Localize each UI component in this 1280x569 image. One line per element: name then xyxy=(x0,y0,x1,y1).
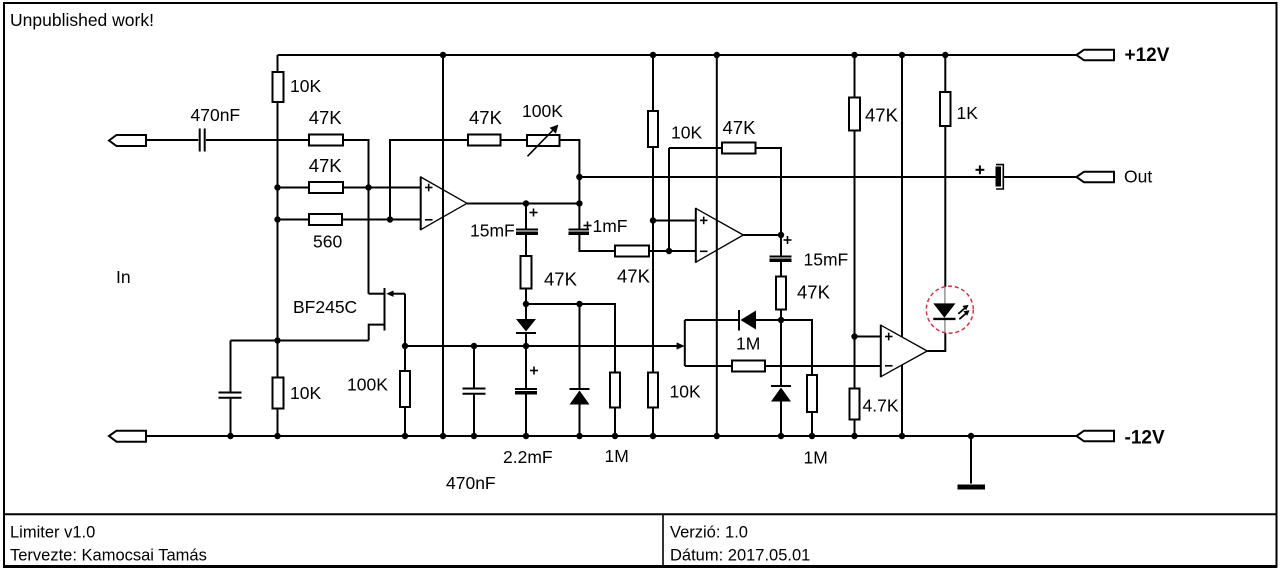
svg-text:In: In xyxy=(116,267,131,287)
svg-text:1M: 1M xyxy=(804,448,828,468)
node junction x390 xyxy=(387,216,393,222)
wire 4.7K to rail xyxy=(854,420,856,437)
svg-text:560: 560 xyxy=(313,232,342,252)
wire out cap to connector xyxy=(1003,176,1077,178)
svg-text:47K: 47K xyxy=(617,266,651,287)
node junction botrail x580 xyxy=(576,433,582,439)
vertical wire 10K col x653 xyxy=(652,55,654,111)
plus mark 2.2mF xyxy=(530,367,538,375)
title block divider xyxy=(662,515,664,566)
LED D5 xyxy=(926,286,973,333)
capacitor source bypass xyxy=(219,393,242,398)
wire 15mF1 top xyxy=(525,204,527,230)
node junction rail x443 xyxy=(440,52,446,58)
node junction rail x902 xyxy=(899,52,905,58)
node junction 15mF branch xyxy=(523,200,529,206)
node junction +in3 xyxy=(851,333,857,339)
svg-text:47K: 47K xyxy=(309,107,343,128)
svg-text:47K: 47K xyxy=(469,107,503,128)
op-amp U1 xyxy=(421,176,467,230)
svg-text:BF245C: BF245C xyxy=(293,297,357,317)
wire 1M to rail xyxy=(614,408,616,437)
resistor 47K input xyxy=(309,135,343,146)
resistor 1K xyxy=(940,92,951,126)
title block top line xyxy=(3,513,1277,515)
ground xyxy=(958,485,986,490)
resistor 10K bottom-left xyxy=(273,378,284,409)
wire 100K to rail xyxy=(404,407,406,436)
resistor 10K x653 bottom xyxy=(648,373,658,408)
wire pot to corner xyxy=(560,140,580,229)
wire 1M x812 to rail xyxy=(811,412,813,436)
node junction botrail x277 xyxy=(274,433,280,439)
node junction botrail x526 xyxy=(523,433,529,439)
wire -in1 row left xyxy=(278,219,310,221)
resistor 47K vert stage1 xyxy=(521,256,532,289)
wire +in1 row right xyxy=(343,187,421,189)
plus mark output cap xyxy=(976,165,985,174)
wire zener D2 column xyxy=(579,304,581,389)
potentiometer 100K xyxy=(527,135,560,146)
wire opamp2 output xyxy=(743,234,781,236)
wire opamp3 output xyxy=(927,333,945,351)
node junction y304 left xyxy=(523,301,529,307)
wire box top right xyxy=(756,320,812,375)
wire bypass cap top xyxy=(230,341,232,393)
wire 47K to node304 xyxy=(525,289,527,305)
svg-text:Dátum: 2017.05.01: Dátum: 2017.05.01 xyxy=(670,547,810,565)
svg-text:Verzió: 1.0: Verzió: 1.0 xyxy=(670,524,748,542)
wire D3 column xyxy=(780,320,782,386)
wire +in3 xyxy=(855,336,881,338)
node junction botrail x812 xyxy=(809,433,815,439)
wire 10K down column xyxy=(277,102,279,378)
capacitor 15mF stage2 xyxy=(770,257,792,263)
node junction botrail x443 xyxy=(440,433,446,439)
node junction botrail x474 xyxy=(471,433,477,439)
wire 10K to rail xyxy=(277,409,279,437)
node junction x277 560 row xyxy=(274,216,280,222)
node junction rail x854 xyxy=(851,52,857,58)
svg-text:100K: 100K xyxy=(347,375,388,395)
wire x653 middle xyxy=(652,147,654,373)
wire 100K bottom column xyxy=(404,346,406,371)
svg-text:-12V: -12V xyxy=(1125,428,1165,449)
diode D2 up xyxy=(570,389,590,436)
svg-text:470nF: 470nF xyxy=(191,105,241,125)
wire 2.2mF top xyxy=(525,346,527,389)
-12V rail wire xyxy=(146,435,1077,437)
wire input to cap xyxy=(146,139,198,141)
wire box top left xyxy=(685,319,739,321)
node junction rail x717 xyxy=(714,52,720,58)
wire control line xyxy=(405,345,678,347)
svg-text:10K: 10K xyxy=(290,383,321,403)
wire -in3 xyxy=(765,365,881,367)
resistor 10K top-left xyxy=(273,72,284,102)
wire 15mF2 to 47K xyxy=(780,262,782,277)
node junction box top x781 xyxy=(778,317,784,323)
svg-text:10K: 10K xyxy=(670,382,701,402)
connector -12V rail left xyxy=(109,431,146,442)
wire feedback riser left xyxy=(668,148,670,251)
wire 1mF to 47K row xyxy=(579,235,615,251)
svg-text:1mF: 1mF xyxy=(593,216,628,236)
resistor 4.7K xyxy=(850,389,860,420)
diode D4 left xyxy=(739,310,756,331)
wire +in2 xyxy=(653,220,696,222)
connector In xyxy=(109,135,146,146)
svg-text:47K: 47K xyxy=(309,155,343,176)
resistor 1M x615 xyxy=(610,373,620,408)
wire 47K to box node xyxy=(780,310,782,321)
wire x854 middle xyxy=(854,131,856,389)
node junction botrail x902 xyxy=(899,433,905,439)
wire x390 riser xyxy=(390,140,468,220)
node junction out line start xyxy=(576,174,582,180)
resistor 1M horizontal xyxy=(732,361,765,372)
svg-text:+12V: +12V xyxy=(1125,45,1170,66)
plus mark 15mF1 xyxy=(530,209,538,217)
wire 470nF shunt bottom xyxy=(473,394,475,436)
wire inside LED circle bottom xyxy=(944,320,946,334)
node junction y304 x580 xyxy=(576,301,582,307)
wire supply column op1 xyxy=(442,55,444,436)
frame bottom thick edge xyxy=(3,565,1277,568)
svg-text:1M: 1M xyxy=(605,446,629,466)
arrow control into box xyxy=(677,342,685,349)
wire y304 xyxy=(526,304,615,373)
capacitor 15mF stage1 xyxy=(516,230,538,236)
wire box left vertical xyxy=(684,320,686,366)
node junction 2.2mF top xyxy=(523,343,529,349)
node junction botrail x653 xyxy=(650,433,656,439)
wire bypass cap bottom xyxy=(230,398,232,436)
svg-text:10K: 10K xyxy=(290,76,321,96)
wire 470nF shunt top xyxy=(473,346,475,388)
plus mark 15mF2 xyxy=(784,236,792,244)
wire box bottom left xyxy=(685,365,732,367)
node junction 470nF cap top xyxy=(471,343,477,349)
wire 1K to LED xyxy=(944,126,946,287)
resistor 47K stage2 xyxy=(468,135,501,146)
wire 2.2mF bottom xyxy=(525,395,527,437)
wire feedback top left xyxy=(669,147,722,149)
node junction -in2 feedback xyxy=(666,248,672,254)
node junction rail x653 xyxy=(650,52,656,58)
op-amp U2 xyxy=(696,208,744,263)
resistor 560 xyxy=(309,214,342,225)
wire 15mF to 47K xyxy=(525,235,527,256)
wire source row xyxy=(231,340,369,342)
wire -in2 xyxy=(649,250,696,252)
ground stub wire xyxy=(970,436,972,484)
resistor 47K noninv xyxy=(309,182,343,193)
svg-text:47K: 47K xyxy=(865,105,899,126)
potentiometer arrow xyxy=(528,125,559,157)
wire 47K to corner down xyxy=(343,140,369,294)
node junction botrail x405 xyxy=(402,433,408,439)
svg-text:15mF: 15mF xyxy=(804,250,849,270)
wire to 15mF2 xyxy=(780,235,782,256)
resistor 47K feedback2 xyxy=(722,143,756,154)
wire +in1 row left xyxy=(278,187,310,189)
capacitor 470nF shunt xyxy=(463,389,486,394)
wire x653 to rail xyxy=(652,408,654,437)
connector +12V xyxy=(1077,50,1115,61)
wire gate riser xyxy=(404,294,406,346)
node junction botrail x717 xyxy=(714,433,720,439)
wire opamp1 output xyxy=(467,203,579,205)
capacitor output electrolytic xyxy=(996,165,1004,189)
+12V rail wire xyxy=(278,54,1077,56)
transistor BF245C JFET xyxy=(369,288,406,341)
connector -12V xyxy=(1077,431,1115,442)
op-amp U3 xyxy=(881,325,927,378)
wire out line xyxy=(579,176,995,178)
node junction gate-100K xyxy=(402,343,408,349)
node junction botrail x971 xyxy=(968,433,974,439)
plus mark 1mF xyxy=(584,222,592,230)
wire -in1 row right xyxy=(342,219,421,221)
svg-text:470nF: 470nF xyxy=(446,473,496,493)
svg-text:Out: Out xyxy=(1124,167,1152,187)
node junction opamp2 output xyxy=(778,232,784,238)
capacitor 470nF series xyxy=(200,129,205,152)
node junction rail x945 xyxy=(942,52,948,58)
resistor 1M x812 xyxy=(807,375,817,412)
vertical wire 10K column top xyxy=(277,55,279,72)
wire 1K column top xyxy=(944,55,946,92)
svg-text:4.7K: 4.7K xyxy=(863,396,899,416)
resistor 10K x653 top xyxy=(648,111,658,147)
resistor 47K to -in2 xyxy=(615,246,649,257)
svg-text:1K: 1K xyxy=(957,103,979,123)
node junction x277 47K row xyxy=(274,184,280,190)
resistor 47K x781 xyxy=(776,277,786,310)
svg-text:47K: 47K xyxy=(797,282,831,303)
node junction botrail x854 xyxy=(851,433,857,439)
wire inside LED circle top xyxy=(944,286,946,303)
svg-text:100K: 100K xyxy=(522,101,563,121)
wire supply column op2 xyxy=(716,55,718,436)
resistor 47K x854 xyxy=(849,98,860,131)
svg-text:47K: 47K xyxy=(723,117,757,138)
node junction botrail x230 xyxy=(227,433,233,439)
wire 47K to pot xyxy=(501,139,528,141)
diode D1 down xyxy=(516,304,536,346)
node junction opamp1 output xyxy=(576,200,582,206)
wire cap to 47K xyxy=(206,139,309,141)
connector Out xyxy=(1077,172,1115,183)
diode D3 up xyxy=(771,386,791,436)
svg-text:15mF: 15mF xyxy=(470,221,515,241)
wire 47K x854 top xyxy=(854,55,856,98)
svg-text:10K: 10K xyxy=(671,123,702,143)
svg-text:Tervezte: Kamocsai Tamás: Tervezte: Kamocsai Tamás xyxy=(10,547,207,565)
node junction botrail x781 xyxy=(778,433,784,439)
wire supply column op3 xyxy=(901,55,903,436)
node junction botrail x615 xyxy=(612,433,618,439)
resistor 100K bottom xyxy=(400,371,410,407)
node junction +in2 xyxy=(650,217,656,223)
svg-text:Limiter v1.0: Limiter v1.0 xyxy=(10,524,95,542)
wire feedback top right xyxy=(756,148,782,235)
svg-text:2.2mF: 2.2mF xyxy=(503,447,553,467)
svg-text:47K: 47K xyxy=(544,269,578,290)
svg-text:1M: 1M xyxy=(736,334,760,354)
node junction +in1 x368 xyxy=(365,184,371,190)
svg-text:Unpublished work!: Unpublished work! xyxy=(10,10,154,30)
node junction x277 source row xyxy=(274,337,280,343)
capacitor 1mF xyxy=(569,230,590,236)
capacitor 2.2mF xyxy=(515,389,537,395)
